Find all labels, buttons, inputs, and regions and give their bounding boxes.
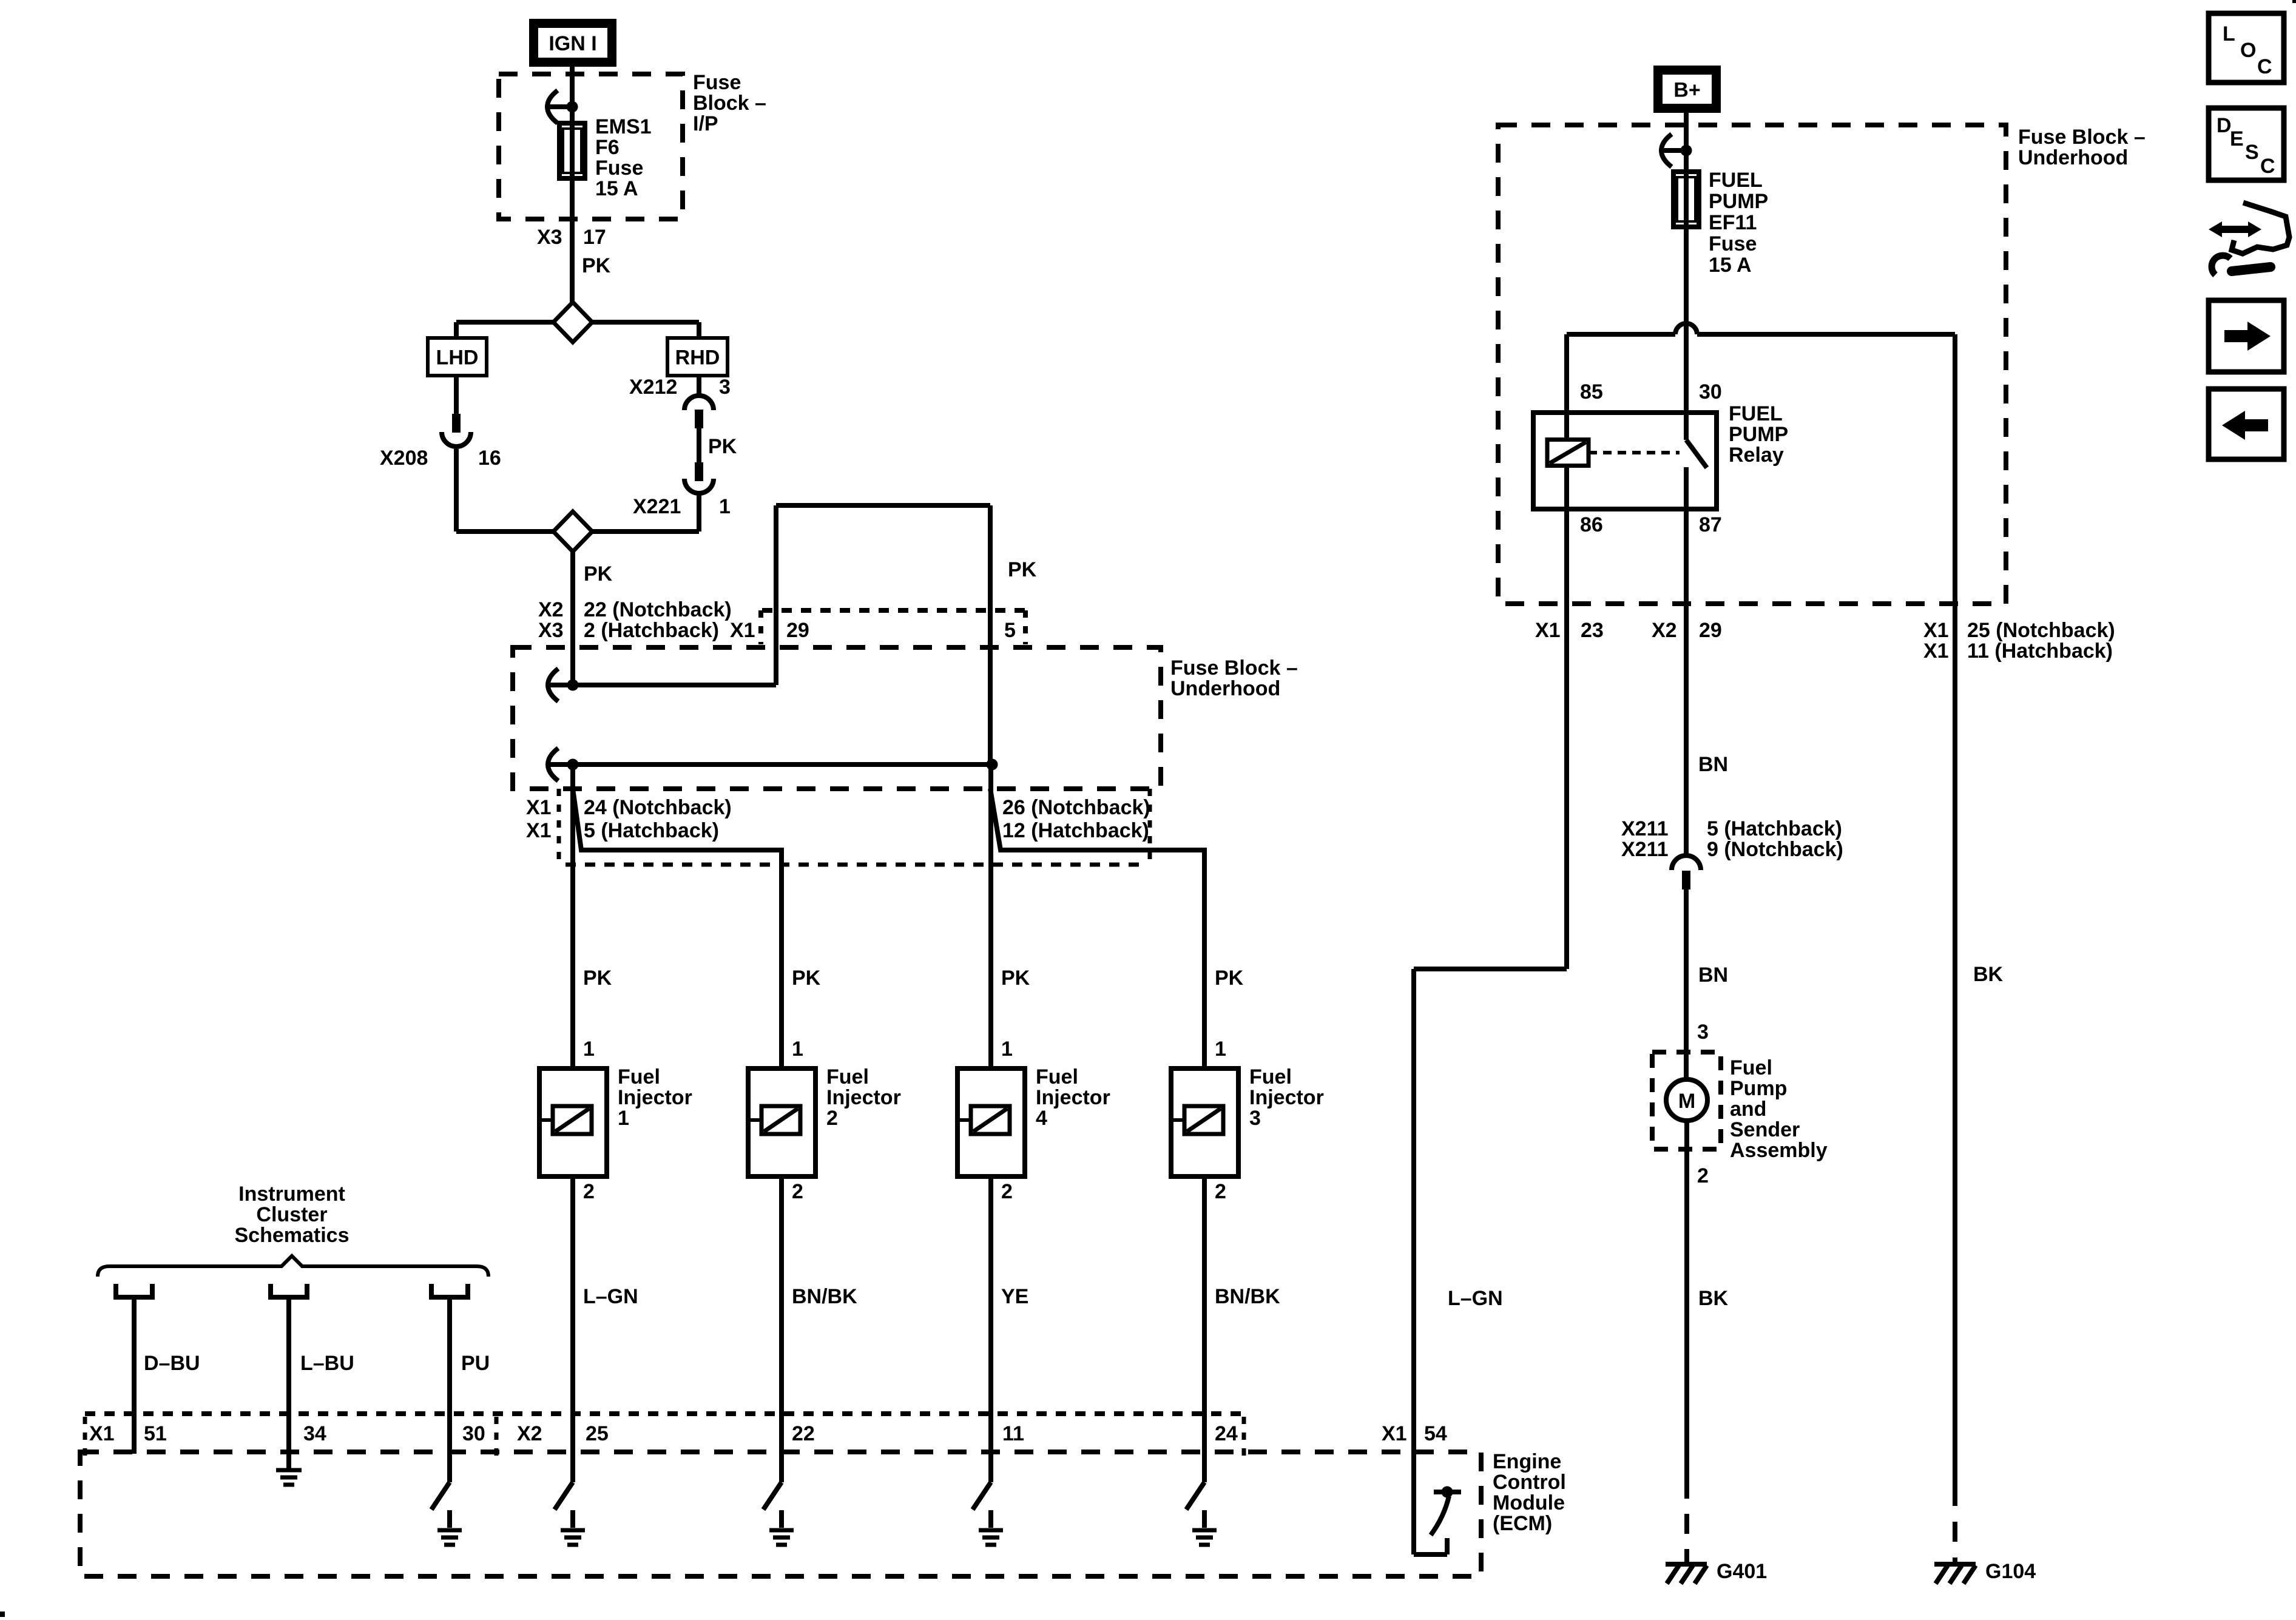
svg-text:D: D bbox=[2217, 114, 2232, 137]
svg-text:24: 24 bbox=[1215, 1422, 1238, 1445]
svg-text:23: 23 bbox=[1581, 619, 1604, 642]
svg-text:(ECM): (ECM) bbox=[1493, 1512, 1552, 1535]
svg-text:Fuel: Fuel bbox=[1249, 1065, 1292, 1088]
svg-text:Fuse: Fuse bbox=[1709, 232, 1757, 255]
svg-text:2 (Hatchback): 2 (Hatchback) bbox=[584, 619, 719, 642]
svg-text:30: 30 bbox=[462, 1422, 485, 1445]
svg-text:51: 51 bbox=[144, 1422, 167, 1445]
svg-text:Module: Module bbox=[1493, 1491, 1565, 1514]
svg-text:1: 1 bbox=[1001, 1038, 1013, 1061]
svg-text:2: 2 bbox=[1215, 1180, 1226, 1203]
svg-text:X2: X2 bbox=[517, 1422, 542, 1445]
svg-text:2: 2 bbox=[1697, 1164, 1709, 1187]
svg-text:Sender: Sender bbox=[1730, 1118, 1800, 1141]
svg-text:PK: PK bbox=[584, 562, 613, 586]
svg-text:Block –: Block – bbox=[693, 92, 766, 115]
svg-text:Relay: Relay bbox=[1729, 444, 1784, 467]
svg-text:Fuse Block –: Fuse Block – bbox=[2018, 126, 2146, 149]
svg-text:1: 1 bbox=[719, 495, 731, 518]
svg-text:O: O bbox=[2240, 39, 2256, 62]
svg-text:X1: X1 bbox=[1923, 619, 1949, 642]
svg-text:24 (Notchback): 24 (Notchback) bbox=[584, 796, 732, 819]
svg-text:X221: X221 bbox=[633, 495, 681, 518]
svg-text:Fuse: Fuse bbox=[693, 71, 741, 94]
svg-text:4: 4 bbox=[1036, 1107, 1047, 1130]
svg-text:C: C bbox=[2257, 55, 2272, 78]
svg-text:PK: PK bbox=[582, 254, 611, 277]
svg-text:54: 54 bbox=[1424, 1422, 1447, 1445]
svg-text:Engine: Engine bbox=[1493, 1450, 1561, 1473]
svg-text:1: 1 bbox=[792, 1038, 803, 1061]
svg-text:X208: X208 bbox=[380, 447, 428, 470]
svg-text:LHD: LHD bbox=[436, 346, 479, 370]
svg-text:Underhood: Underhood bbox=[2018, 146, 2128, 169]
svg-text:Fuel: Fuel bbox=[826, 1065, 869, 1088]
svg-text:L–BU: L–BU bbox=[300, 1352, 354, 1375]
svg-text:2: 2 bbox=[1001, 1180, 1013, 1203]
svg-text:Fuel: Fuel bbox=[1036, 1065, 1078, 1088]
svg-text:M: M bbox=[1678, 1090, 1695, 1113]
svg-text:2: 2 bbox=[792, 1180, 803, 1203]
svg-text:PUMP: PUMP bbox=[1729, 423, 1788, 446]
svg-text:X1: X1 bbox=[526, 796, 552, 819]
svg-text:3: 3 bbox=[1697, 1021, 1709, 1044]
svg-text:17: 17 bbox=[583, 226, 606, 249]
svg-text:PUMP: PUMP bbox=[1709, 190, 1768, 213]
svg-text:BK: BK bbox=[1698, 1287, 1729, 1310]
svg-text:X211: X211 bbox=[1621, 838, 1669, 861]
svg-text:15 A: 15 A bbox=[1709, 254, 1752, 277]
svg-text:Injector: Injector bbox=[826, 1086, 901, 1109]
svg-text:PK: PK bbox=[583, 967, 612, 990]
svg-text:BN/BK: BN/BK bbox=[1215, 1285, 1280, 1308]
svg-text:Instrument: Instrument bbox=[238, 1183, 345, 1206]
svg-text:BN: BN bbox=[1698, 964, 1728, 987]
svg-text:PK: PK bbox=[708, 435, 737, 458]
svg-text:3: 3 bbox=[1249, 1107, 1261, 1130]
svg-text:G401: G401 bbox=[1717, 1560, 1767, 1583]
svg-text:16: 16 bbox=[478, 447, 501, 470]
svg-text:Underhood: Underhood bbox=[1170, 677, 1280, 700]
svg-text:L–GN: L–GN bbox=[1448, 1287, 1503, 1310]
svg-text:and: and bbox=[1730, 1098, 1766, 1121]
svg-text:Injector: Injector bbox=[1249, 1086, 1324, 1109]
svg-text:Fuel: Fuel bbox=[618, 1065, 660, 1088]
svg-text:11 (Hatchback): 11 (Hatchback) bbox=[1967, 640, 2113, 663]
svg-text:Cluster: Cluster bbox=[256, 1203, 327, 1226]
svg-text:Fuse Block –: Fuse Block – bbox=[1170, 656, 1298, 680]
svg-text:87: 87 bbox=[1699, 513, 1722, 536]
svg-text:Schematics: Schematics bbox=[235, 1224, 349, 1247]
svg-text:C: C bbox=[2260, 155, 2275, 178]
svg-text:15 A: 15 A bbox=[595, 177, 638, 200]
svg-text:25: 25 bbox=[586, 1422, 609, 1445]
svg-text:B+: B+ bbox=[1673, 79, 1700, 102]
svg-text:FUEL: FUEL bbox=[1729, 402, 1783, 425]
svg-text:Fuel: Fuel bbox=[1730, 1056, 1772, 1079]
svg-text:25 (Notchback): 25 (Notchback) bbox=[1967, 619, 2115, 642]
svg-text:Control: Control bbox=[1493, 1471, 1566, 1494]
svg-text:29: 29 bbox=[1699, 619, 1722, 642]
svg-text:Pump: Pump bbox=[1730, 1077, 1787, 1100]
svg-text:PK: PK bbox=[1215, 967, 1244, 990]
svg-text:IGN I: IGN I bbox=[549, 32, 596, 55]
svg-text:X212: X212 bbox=[629, 376, 677, 399]
svg-text:1: 1 bbox=[1215, 1038, 1226, 1061]
svg-text:11: 11 bbox=[1002, 1422, 1024, 1445]
svg-text:E: E bbox=[2230, 127, 2244, 150]
svg-text:D–BU: D–BU bbox=[144, 1352, 200, 1375]
svg-text:X1: X1 bbox=[1923, 640, 1949, 663]
svg-text:F6: F6 bbox=[595, 136, 620, 159]
svg-text:86: 86 bbox=[1580, 513, 1603, 536]
svg-text:5: 5 bbox=[1004, 619, 1016, 642]
svg-text:L: L bbox=[2223, 22, 2235, 46]
svg-text:X3: X3 bbox=[538, 619, 564, 642]
svg-text:Assembly: Assembly bbox=[1730, 1139, 1828, 1162]
svg-text:2: 2 bbox=[583, 1180, 595, 1203]
svg-text:X1: X1 bbox=[1382, 1422, 1407, 1445]
svg-text:X1: X1 bbox=[1535, 619, 1561, 642]
svg-text:22: 22 bbox=[792, 1422, 815, 1445]
svg-text:9 (Notchback): 9 (Notchback) bbox=[1707, 838, 1843, 861]
svg-text:X2: X2 bbox=[1652, 619, 1677, 642]
svg-text:12 (Hatchback): 12 (Hatchback) bbox=[1002, 819, 1149, 842]
svg-text:Injector: Injector bbox=[618, 1086, 692, 1109]
svg-text:X2: X2 bbox=[538, 598, 564, 621]
svg-text:PK: PK bbox=[1001, 967, 1030, 990]
svg-text:3: 3 bbox=[719, 376, 731, 399]
svg-text:2: 2 bbox=[826, 1107, 838, 1130]
svg-text:29: 29 bbox=[786, 619, 809, 642]
svg-text:85: 85 bbox=[1580, 380, 1603, 403]
svg-text:EMS1: EMS1 bbox=[595, 115, 652, 138]
svg-text:I/P: I/P bbox=[693, 112, 718, 135]
svg-text:EF11: EF11 bbox=[1709, 211, 1757, 234]
svg-text:X1: X1 bbox=[526, 819, 552, 842]
svg-text:Fuse: Fuse bbox=[595, 157, 643, 180]
svg-text:Injector: Injector bbox=[1036, 1086, 1110, 1109]
svg-text:PU: PU bbox=[461, 1352, 490, 1375]
svg-text:22 (Notchback): 22 (Notchback) bbox=[584, 598, 732, 621]
svg-text:FUEL: FUEL bbox=[1709, 169, 1763, 192]
svg-text:5 (Hatchback): 5 (Hatchback) bbox=[1707, 817, 1842, 840]
svg-text:PK: PK bbox=[1008, 558, 1037, 581]
svg-text:S: S bbox=[2245, 141, 2259, 164]
svg-text:BK: BK bbox=[1973, 963, 2004, 986]
svg-text:5 (Hatchback): 5 (Hatchback) bbox=[584, 819, 719, 842]
svg-text:RHD: RHD bbox=[675, 346, 720, 370]
svg-text:X211: X211 bbox=[1621, 817, 1669, 840]
svg-text:PK: PK bbox=[792, 967, 821, 990]
svg-text:YE: YE bbox=[1001, 1285, 1028, 1308]
svg-text:1: 1 bbox=[583, 1038, 595, 1061]
svg-text:26 (Notchback): 26 (Notchback) bbox=[1002, 796, 1150, 819]
svg-text:34: 34 bbox=[303, 1422, 326, 1445]
svg-text:30: 30 bbox=[1699, 380, 1722, 403]
svg-text:X1: X1 bbox=[730, 619, 755, 642]
svg-text:X1: X1 bbox=[89, 1422, 115, 1445]
svg-text:L–GN: L–GN bbox=[583, 1285, 638, 1308]
svg-text:BN: BN bbox=[1698, 753, 1728, 776]
svg-text:X3: X3 bbox=[537, 226, 562, 249]
svg-text:G104: G104 bbox=[1985, 1560, 2036, 1583]
svg-text:BN/BK: BN/BK bbox=[792, 1285, 857, 1308]
svg-text:1: 1 bbox=[618, 1107, 629, 1130]
